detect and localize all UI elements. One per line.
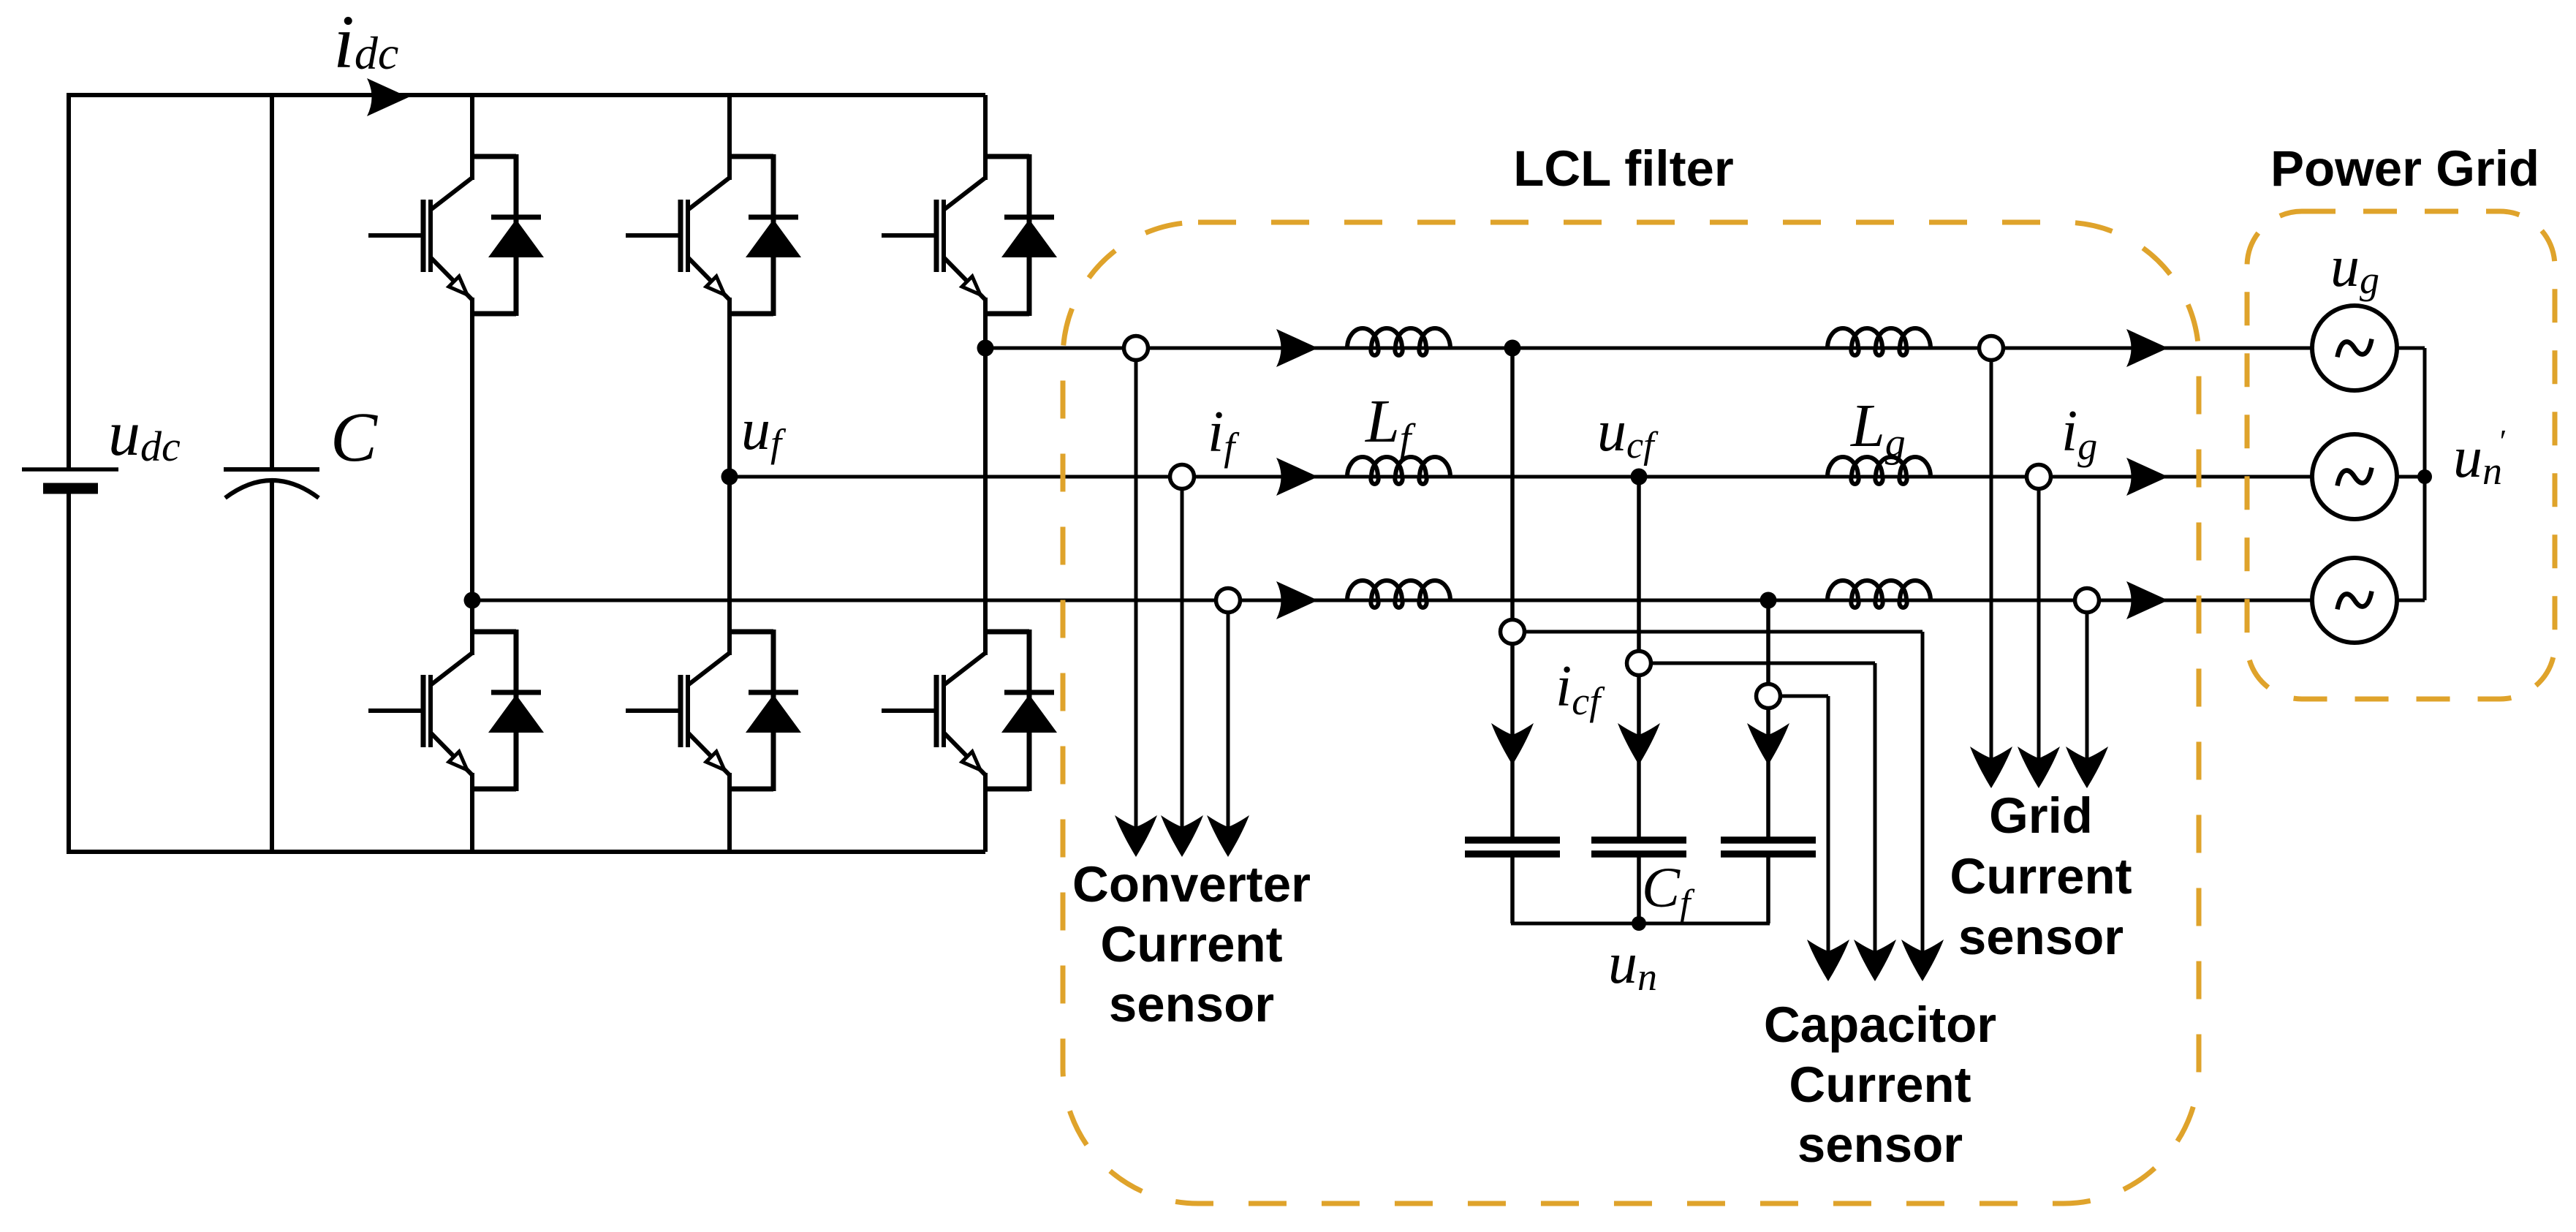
wire capacitor branch 3 — [1766, 600, 1770, 837]
wire converter sensor drop 3 — [1227, 612, 1230, 830]
node capacitor branch 1 — [1504, 340, 1521, 357]
wire bottom DC bus — [69, 850, 985, 854]
AC source u_g phase 1 — [2312, 306, 2397, 390]
wire grid sensor drop 2 — [2037, 488, 2041, 761]
converter current sensor tap phase 2 — [1170, 465, 1194, 489]
LCL filter boundary (dashed box) — [1063, 222, 2199, 1203]
capacitor current sensor tap 1 — [1501, 620, 1525, 644]
wire DC capacitor rail upper — [270, 93, 274, 469]
wire capacitor sensor tap 3 — [1780, 696, 1828, 954]
wire leg2 emitter lead to bottom bus — [727, 773, 732, 852]
capacitor current sensor tap 3 — [1757, 684, 1781, 708]
arrow i_f phase 2 — [1276, 458, 1318, 496]
svg-text:Power Grid: Power Grid — [2270, 140, 2539, 197]
wire capacitor 1 to neutral — [1510, 857, 1515, 923]
node u_n' grid neutral — [2417, 469, 2432, 484]
IGBT Q3 upper with antiparallel diode — [882, 154, 1057, 316]
svg-text:un′: un′ — [2453, 423, 2506, 493]
label u_g — [2330, 235, 2379, 302]
inductor L_f phase 3 — [1347, 581, 1450, 608]
svg-text:C: C — [330, 398, 378, 476]
AC source u_g phase 3 — [2312, 558, 2397, 643]
arrow i_g phase 1 — [2126, 329, 2168, 367]
arrow converter sensor 1 — [1115, 815, 1157, 857]
arrow i_cf branch 3 — [1747, 723, 1789, 765]
IGBT Q1' lower with antiparallel diode — [368, 630, 544, 791]
capacitor C_f phase 2 plates — [1591, 840, 1686, 854]
arrow capacitor sensor 2 — [1854, 940, 1896, 981]
wire top DC bus — [69, 93, 985, 97]
label i_g — [2061, 399, 2097, 468]
wire leg3 midpoint lead — [983, 298, 988, 655]
arrow i_g phase 2 — [2126, 458, 2168, 496]
inductor L_g phase 3 — [1827, 581, 1931, 608]
arrow i_g phase 3 — [2126, 581, 2168, 619]
grid current sensor tap phase 2 — [2027, 465, 2051, 489]
arrow converter sensor 2 — [1161, 815, 1203, 857]
wire converter sensor drop 1 — [1134, 360, 1138, 830]
svg-text:LCL filter: LCL filter — [1513, 140, 1734, 197]
wire capacitor 2 to neutral — [1637, 857, 1641, 923]
arrow i_cf branch 2 — [1618, 723, 1660, 765]
arrow grid sensor 1 — [1970, 747, 2012, 788]
wire battery rail upper — [67, 93, 71, 469]
label C_f — [1642, 855, 1695, 924]
label u_cf — [1597, 399, 1659, 466]
IGBT Q2' lower with antiparallel diode — [626, 630, 801, 791]
capacitor current sensor tap 2 — [1627, 651, 1651, 676]
wire capacitor sensor tap 1 — [1524, 632, 1922, 954]
wire leg2 midpoint lead — [727, 298, 732, 655]
node capacitor branch 3 — [1760, 592, 1777, 609]
wire grid sensor drop 1 — [1990, 360, 1993, 761]
wire leg1 emitter lead to bottom bus — [470, 773, 474, 852]
label u_dc — [108, 398, 181, 470]
wire grid neutral bus — [2397, 348, 2425, 600]
arrow i_cf branch 1 — [1491, 723, 1534, 765]
inductor L_f phase 1 — [1347, 328, 1450, 355]
arrow i_f phase 1 — [1276, 329, 1318, 367]
label u_f — [741, 398, 787, 465]
wire filter neutral bus — [1511, 922, 1770, 926]
node u_f (leg2 midpoint) — [721, 469, 738, 485]
converter current sensor tap phase 1 — [1124, 336, 1148, 360]
arrow capacitor sensor 1 — [1901, 940, 1944, 981]
wire converter sensor drop 2 — [1181, 488, 1184, 830]
label Power Grid — [2270, 140, 2539, 197]
node phase a (leg3 midpoint) — [977, 340, 994, 357]
grid current sensor tap phase 1 — [1980, 336, 2004, 360]
label L_f — [1365, 388, 1417, 461]
wire phase a line — [985, 347, 2312, 350]
IGBT Q3' lower with antiparallel diode — [882, 630, 1057, 791]
arrow grid sensor 2 — [2018, 747, 2060, 788]
label u_n' — [2453, 423, 2506, 493]
wire leg3 collector lead — [983, 95, 988, 180]
arrow i_f phase 3 — [1276, 581, 1318, 619]
label Grid Current sensor — [1950, 787, 2132, 965]
label LCL filter — [1513, 140, 1734, 197]
wire phase b line — [730, 475, 2312, 479]
label i_f — [1208, 400, 1240, 469]
battery u_dc negative plate — [43, 483, 98, 494]
arrow converter sensor 3 — [1207, 815, 1249, 857]
svg-text:CapacitorCurrentsensor: CapacitorCurrentsensor — [1764, 997, 1996, 1173]
node phase c (leg1 midpoint) — [464, 592, 481, 609]
inductor L_f phase 2 — [1347, 457, 1450, 484]
arrow capacitor sensor 3 — [1807, 940, 1849, 981]
grid current sensor tap phase 3 — [2075, 589, 2099, 613]
capacitor C curved plate — [225, 480, 319, 498]
wire grid sensor drop 3 — [2086, 612, 2089, 761]
wire capacitor 3 to neutral — [1766, 857, 1770, 923]
AC source u_g phase 2 — [2312, 434, 2397, 519]
inductor L_g phase 2 — [1827, 457, 1931, 484]
label u_n — [1608, 931, 1657, 999]
label L_g — [1850, 392, 1906, 466]
label Capacitor Current sensor — [1764, 997, 1996, 1173]
capacitor C_f phase 3 plates — [1721, 840, 1816, 854]
label i_dc — [333, 0, 398, 84]
wire leg3 emitter lead to bottom bus — [983, 773, 988, 852]
wire leg1 midpoint lead — [470, 298, 474, 655]
inductor L_g phase 1 — [1827, 328, 1931, 355]
IGBT Q1 upper with antiparallel diode — [368, 154, 544, 316]
wire battery rail lower — [67, 494, 71, 854]
converter current sensor tap phase 3 — [1216, 589, 1240, 613]
battery u_dc positive plate — [22, 467, 118, 472]
arrow i_dc on top bus — [367, 78, 409, 116]
arrow grid sensor 3 — [2066, 747, 2108, 788]
wire leg2 collector lead — [727, 95, 732, 180]
label Converter Current sensor — [1072, 856, 1311, 1032]
capacitor C_f phase 1 plates — [1465, 840, 1560, 854]
IGBT Q2 upper with antiparallel diode — [626, 154, 801, 316]
label i_cf — [1556, 654, 1605, 723]
wire capacitor branch 1 — [1510, 348, 1515, 837]
wire capacitor sensor tap 2 — [1651, 663, 1875, 954]
capacitor C top plate — [224, 467, 319, 472]
node u_n neutral — [1632, 916, 1646, 931]
Power Grid boundary (dashed box) — [2247, 211, 2555, 699]
wire leg1 collector lead — [470, 95, 474, 180]
wire capacitor branch 2 — [1637, 477, 1641, 837]
label C — [330, 398, 378, 476]
wire phase c line — [472, 599, 2312, 602]
wire DC capacitor rail lower — [270, 482, 274, 854]
node capacitor branch 2 — [1631, 469, 1648, 485]
